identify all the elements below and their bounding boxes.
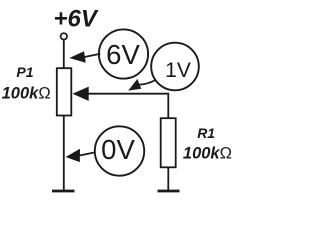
svg-text:6V: 6V [106, 39, 140, 70]
terminal +6V [61, 33, 67, 39]
svg-text:+6V: +6V [54, 6, 99, 33]
svg-text:100kΩ: 100kΩ [183, 145, 232, 163]
svg-text:R1: R1 [197, 125, 215, 141]
pointer from 6V bubble to +6V wire [69, 51, 100, 63]
ground (left) [52, 190, 75, 193]
wiper arrow of P1 [73, 87, 169, 101]
svg-text:1V: 1V [165, 59, 191, 82]
voltage bubble 0V [95, 126, 144, 175]
pointer from 0V bubble to ground wire [66, 149, 95, 162]
potentiometer P1 [57, 68, 72, 115]
voltage bubble 1V [151, 43, 199, 91]
pointer from 1V bubble to wiper wire [128, 79, 155, 91]
wire R1 bottom to ground [167, 167, 169, 190]
svg-text:0V: 0V [101, 134, 135, 165]
wire P1 bottom to ground [63, 116, 65, 191]
ground (right) [158, 190, 180, 193]
svg-text:P1: P1 [16, 64, 33, 80]
resistor R1 [161, 118, 176, 167]
voltage bubble 6V [99, 29, 148, 78]
wire wiper to R1 top [167, 93, 169, 119]
svg-text:100kΩ: 100kΩ [2, 85, 51, 103]
wire terminal to P1 top [63, 40, 65, 68]
